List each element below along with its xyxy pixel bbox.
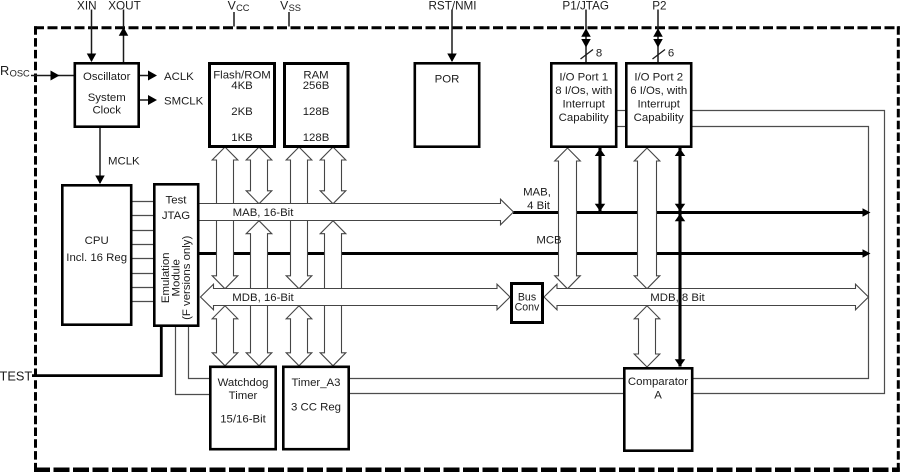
svg-text:15/16-Bit: 15/16-Bit (220, 414, 266, 426)
svg-text:MAB,: MAB, (523, 187, 551, 199)
chip boundary dashed border left (34, 26, 37, 472)
wire TEST to JTAG (32, 327, 161, 376)
svg-text:Timer_A3: Timer_A3 (292, 377, 341, 389)
svg-text:SMCLK: SMCLK (164, 96, 204, 108)
chip boundary dashed border top (34, 26, 900, 29)
block POR (415, 63, 479, 146)
svg-text:JTAG: JTAG (162, 210, 190, 222)
svg-text:TEST: TEST (0, 369, 32, 384)
block Test JTAG / Emulation Module (154, 184, 198, 325)
wire VSS stub (288, 12, 290, 27)
bus arrow MDB 8-bit to Comparator A (634, 306, 660, 367)
svg-text:P2: P2 (652, 0, 666, 13)
wire XIN into oscillator (91, 10, 93, 62)
svg-text:Interrupt: Interrupt (562, 98, 605, 110)
block Timer_A3 (283, 367, 348, 449)
svg-text:Timer: Timer (229, 390, 258, 402)
block Watchdog Timer (210, 367, 275, 449)
svg-text:SS: SS (289, 3, 301, 13)
wire ACLK output (140, 71, 157, 81)
svg-text:8: 8 (596, 48, 602, 60)
svg-text:Conv: Conv (515, 301, 540, 313)
wires CPU to Test/JTAG (8 lines) (131, 202, 154, 302)
wire P2 into I/O Port 2 with bidirectional arrows (653, 10, 675, 63)
svg-text:MAB, 16-Bit: MAB, 16-Bit (233, 207, 295, 219)
bus arrow MAB to Watchdog (crosses MCB, MDB) (246, 221, 272, 366)
svg-text:Watchdog: Watchdog (218, 377, 269, 389)
text I/O Port 2 (630, 71, 687, 124)
text Oscillator System Clock (83, 71, 131, 117)
svg-text:XIN: XIN (77, 0, 96, 13)
bus arrow I/O Port 1 to MDB 8-bit (crosses MAB 4-bit, MCB) (555, 148, 581, 289)
svg-text:System: System (88, 92, 126, 104)
svg-text:4KB: 4KB (231, 80, 253, 92)
label MAB, 4 Bit (523, 187, 551, 213)
text Test JTAG (162, 194, 190, 222)
svg-text:Clock: Clock (92, 105, 121, 117)
block Flash/ROM (210, 64, 275, 147)
bus MAB 4-bit thick line with arrow to port loop (513, 208, 871, 217)
wire SMCLK output (140, 95, 157, 105)
bus MDB 16-bit (201, 284, 511, 310)
svg-text:128B: 128B (303, 106, 330, 118)
svg-text:2KB: 2KB (231, 106, 253, 118)
svg-text:XOUT: XOUT (108, 0, 140, 13)
wire I/O port loop outer (P2 right to comparator/timer bottom) (350, 111, 885, 394)
wire XOUT out of oscillator (123, 10, 125, 63)
pin label VSS (280, 0, 301, 13)
svg-text:4 Bit: 4 Bit (527, 200, 551, 212)
text Emulation Module (F versions only) rotated (160, 236, 193, 320)
svg-text:POR: POR (435, 74, 460, 86)
svg-text:128B: 128B (303, 132, 330, 144)
svg-text:256B: 256B (303, 80, 330, 92)
block Comparator A (624, 368, 692, 450)
svg-text:Interrupt: Interrupt (637, 98, 680, 110)
svg-text:CPU: CPU (85, 235, 109, 247)
svg-text:Capability: Capability (634, 112, 684, 124)
wire emulation to watchdog upper (189, 327, 211, 379)
wire VCC stub (233, 12, 235, 27)
svg-text:Capability: Capability (559, 112, 609, 124)
pin label Rosc (0, 63, 30, 79)
block I/O Port 1 (551, 63, 616, 146)
bus arrow RAM to MAB (320, 147, 346, 204)
chip boundary dashed border bottom (34, 468, 900, 472)
svg-text:OSC: OSC (10, 69, 30, 79)
bus arrow I/O Port 2 to MDB 8-bit (crosses MAB 4-bit, MCB) (634, 148, 660, 289)
svg-text:MDB, 8 Bit: MDB, 8 Bit (650, 292, 705, 304)
text Bus Conv (515, 291, 540, 313)
bus arrow Flash to MAB (246, 147, 272, 204)
svg-text:ACLK: ACLK (164, 71, 194, 83)
bus arrow MAB to Timer_A3 (crosses MCB, MDB) (320, 221, 346, 366)
text Timer_A3 3 CC Reg (291, 377, 341, 413)
svg-text:1KB: 1KB (231, 132, 253, 144)
bus arrow MDB to Timer_A3 (286, 306, 312, 366)
wire emulation to watchdog lower (176, 327, 211, 395)
svg-text:6: 6 (668, 48, 674, 60)
text Watchdog Timer 15/16-Bit (218, 377, 269, 426)
wire RST/NMI into POR (451, 10, 453, 62)
text I/O Port 1 (555, 71, 612, 124)
svg-text:(F versions only): (F versions only) (181, 236, 193, 320)
text Flash/ROM 4KB 2KB 1KB (213, 69, 271, 144)
svg-text:Incl. 16 Reg: Incl. 16 Reg (66, 252, 127, 264)
bus arrow MDB to Watchdog (212, 306, 238, 366)
block CPU (62, 185, 131, 324)
svg-text:MDB, 16-Bit: MDB, 16-Bit (232, 292, 294, 304)
block I/O Port 2 (626, 63, 691, 146)
svg-text:8 I/Os, with: 8 I/Os, with (555, 85, 612, 97)
svg-text:A: A (654, 390, 662, 402)
wires between I/O Port 1 and I/O Port 2 (616, 111, 626, 127)
block Bus Conv (512, 284, 543, 323)
bus MCB thick line with arrow to port loop (199, 249, 871, 258)
svg-text:MCB: MCB (536, 235, 561, 247)
chip boundary dashed border right (897, 26, 900, 472)
pin label VCC (228, 0, 250, 13)
bus arrow Flash to MDB (crosses MAB, MCB) (212, 147, 238, 289)
bus MAB 16-bit (199, 199, 514, 225)
svg-text:CC: CC (236, 3, 250, 13)
bus arrow RAM to MDB (crosses MAB, MCB) (286, 147, 312, 289)
wire I/O Port 1 to MAB 4-bit (solid arrows) (595, 148, 606, 212)
svg-text:MCLK: MCLK (108, 156, 140, 168)
block RAM (285, 64, 349, 147)
text CPU Incl. 16 Reg (66, 235, 127, 264)
text Comparator A (628, 376, 688, 402)
svg-text:Test: Test (166, 194, 188, 206)
svg-text:Comparator: Comparator (628, 376, 688, 388)
svg-text:R: R (0, 63, 9, 78)
svg-text:6 I/Os, with: 6 I/Os, with (630, 85, 687, 97)
svg-text:I/O Port 2: I/O Port 2 (634, 71, 683, 83)
wire I/O Port 2 to MAB 4-bit and Comparator A (solid arrows) (675, 148, 686, 367)
svg-text:I/O Port 1: I/O Port 1 (559, 71, 608, 83)
text RAM 256B 128B 128B (303, 69, 330, 144)
wire I/O port loop inner (350, 127, 869, 379)
block Oscillator / System Clock (75, 63, 139, 126)
svg-text:Oscillator: Oscillator (83, 71, 131, 83)
bus MDB 8-bit (544, 284, 869, 310)
wire P1 into I/O Port 1 with bidirectional arrows (581, 10, 603, 63)
wire MCLK into CPU (95, 128, 105, 184)
svg-text:3 CC Reg: 3 CC Reg (291, 401, 341, 413)
wire Rosc into oscillator (31, 71, 74, 81)
